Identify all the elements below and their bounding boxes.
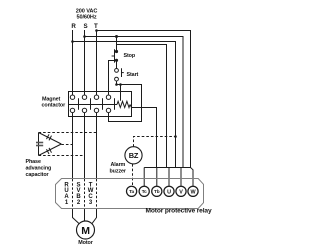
- svg-text:S: S: [83, 23, 87, 30]
- svg-text:Phase: Phase: [26, 159, 41, 165]
- svg-text:contactor: contactor: [42, 103, 67, 109]
- svg-text:Motor: Motor: [78, 240, 93, 246]
- svg-text:R: R: [71, 23, 76, 30]
- svg-text:Stop: Stop: [124, 53, 136, 59]
- svg-text:Ta: Ta: [129, 189, 134, 194]
- svg-text:Magnet: Magnet: [42, 96, 61, 102]
- svg-text:Tb: Tb: [154, 189, 160, 194]
- svg-text:V: V: [179, 189, 183, 195]
- svg-text:Alarm: Alarm: [111, 162, 126, 168]
- svg-text:U: U: [167, 189, 171, 195]
- svg-text:Start: Start: [127, 72, 139, 78]
- svg-text:50/60Hz: 50/60Hz: [76, 15, 96, 21]
- svg-text:advancing: advancing: [26, 166, 52, 172]
- svg-text:Tc: Tc: [142, 189, 147, 194]
- svg-text:T: T: [94, 23, 98, 30]
- svg-text:M: M: [81, 225, 90, 237]
- svg-text:BZ: BZ: [129, 151, 139, 160]
- svg-text:Motor protective relay: Motor protective relay: [146, 207, 212, 214]
- svg-text:buzzer: buzzer: [110, 169, 127, 175]
- svg-text:200 VAC: 200 VAC: [76, 8, 98, 14]
- svg-text:capacitor: capacitor: [26, 172, 50, 178]
